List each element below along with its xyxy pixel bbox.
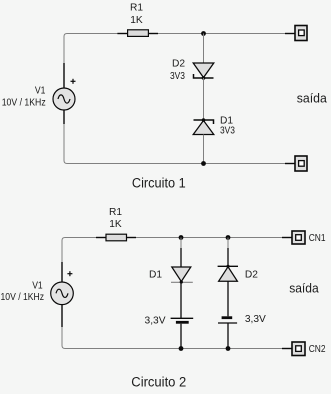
svg-text:3V3: 3V3 bbox=[220, 126, 235, 137]
node: junction dot top branch 1 bbox=[179, 235, 184, 240]
resistor R1 body (circuit 2) bbox=[106, 234, 127, 241]
svg-text:Circuito 2: Circuito 2 bbox=[131, 374, 186, 389]
svg-text:saída: saída bbox=[297, 90, 328, 105]
wire: below D1 to bottom rail bbox=[203, 135, 205, 164]
svg-text:3,3V: 3,3V bbox=[245, 314, 266, 325]
wire: branch 2 stub gray below dot bbox=[227, 238, 229, 249]
wire: branch 1 stub gray below dot bbox=[180, 238, 182, 249]
body bbox=[51, 282, 74, 305]
wire: branch 1 black down to D1 bbox=[180, 248, 182, 282]
svg-text:10V / 1KHz: 10V / 1KHz bbox=[2, 97, 46, 108]
svg-text:R1: R1 bbox=[130, 3, 143, 14]
svg-text:V1: V1 bbox=[35, 86, 46, 97]
wire: branch from top dot down to D2 bbox=[203, 34, 205, 64]
wire: R1 left pin bbox=[96, 237, 106, 239]
wire: terminal pin black bbox=[285, 33, 295, 35]
wire: top rail gray from R1 to terminal bbox=[158, 33, 285, 35]
svg-text:Circuito 1: Circuito 1 bbox=[132, 175, 186, 190]
voltage source V1 circuit 1 bbox=[53, 63, 76, 124]
svg-text:V1: V1 bbox=[32, 281, 43, 292]
voltage source V1 circuit 2 bbox=[51, 262, 74, 327]
plus sign bbox=[71, 80, 76, 82]
wire: V1 bottom pin bbox=[61, 305, 63, 327]
wire: battery 1 to bottom rail bbox=[180, 324, 182, 349]
svg-text:1K: 1K bbox=[109, 219, 122, 230]
terminal: output bottom bbox=[295, 156, 307, 171]
wire: battery 2 to bottom rail bbox=[227, 323, 229, 349]
svg-text:CN1: CN1 bbox=[309, 233, 326, 244]
wire: R1 left pin bbox=[117, 33, 128, 35]
terminal: output top bbox=[295, 26, 307, 41]
svg-text:D1: D1 bbox=[149, 269, 162, 280]
svg-text:3V3: 3V3 bbox=[170, 71, 185, 82]
wire: top rail gray from left corner to R1 bbox=[62, 238, 96, 263]
terminal CN2 bbox=[292, 342, 305, 356]
wire: between D2 and D1 bbox=[203, 78, 205, 120]
svg-text:1K: 1K bbox=[130, 15, 143, 26]
svg-text:CN2: CN2 bbox=[309, 344, 326, 355]
terminal CN1 bbox=[292, 231, 305, 244]
wire: V1 top pin bbox=[63, 63, 65, 88]
wire: branch 2 black down to D2 bbox=[227, 248, 229, 266]
svg-text:saída: saída bbox=[289, 281, 319, 296]
wire: R1 right pin bbox=[126, 237, 136, 239]
wire: left rail lower gray bbox=[64, 124, 285, 164]
zener diode D1 bbox=[193, 118, 214, 134]
wire: top rail gray from left corner to R1 bbox=[64, 34, 118, 64]
battery B2 3,3V bbox=[218, 318, 237, 323]
wire: CN1 pin black bbox=[282, 237, 292, 239]
wire: V1 bottom pin bbox=[63, 110, 65, 124]
svg-text:R1: R1 bbox=[109, 207, 122, 218]
svg-text:10V / 1KHz: 10V / 1KHz bbox=[1, 292, 45, 303]
resistor R1 body bbox=[128, 30, 149, 37]
wire: branch 1 D1 to battery bbox=[180, 282, 182, 318]
battery B1 3,3V bbox=[171, 318, 194, 322]
body bbox=[53, 88, 75, 110]
svg-text:D2: D2 bbox=[245, 269, 258, 280]
node: junction dot bottom bbox=[201, 161, 206, 166]
sine symbol bbox=[56, 289, 68, 297]
svg-text:D2: D2 bbox=[172, 59, 185, 70]
wire: R1 right pin bbox=[148, 33, 158, 35]
zener diode D2 bbox=[193, 63, 214, 80]
diode D2 (circuit 2) bbox=[218, 265, 238, 282]
plus sign bbox=[67, 273, 72, 275]
wire: left rail lower to bottom rail to CN2 bbox=[62, 327, 282, 349]
wire: V1 top pin bbox=[61, 262, 63, 282]
sine symbol bbox=[58, 95, 70, 103]
node: junction dot bottom branch 2 bbox=[226, 346, 231, 351]
wire: bottom terminal pin bbox=[285, 163, 295, 165]
wire: top rail gray to CN1 bbox=[136, 237, 282, 239]
wire: CN2 pin black bbox=[282, 348, 292, 350]
node: junction dot top branch 2 bbox=[226, 235, 231, 240]
svg-text:3,3V: 3,3V bbox=[145, 315, 166, 326]
node: junction dot top bbox=[201, 31, 206, 36]
node: junction dot bottom branch 1 bbox=[179, 346, 184, 351]
diode D1 (circuit 2) bbox=[171, 267, 193, 284]
wire: branch 2 D2 to battery bbox=[227, 281, 229, 316]
